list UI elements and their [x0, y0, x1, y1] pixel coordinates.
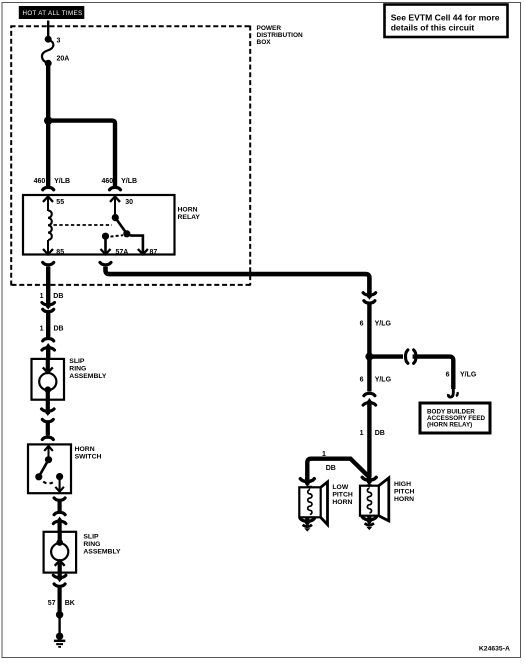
svg-text:DB: DB: [54, 326, 64, 333]
svg-text:SLIP: SLIP: [69, 358, 85, 365]
svg-text:1: 1: [40, 293, 44, 300]
svg-text:30: 30: [125, 199, 133, 206]
svg-text:SLIP: SLIP: [83, 533, 99, 540]
svg-text:PITCH: PITCH: [332, 491, 352, 498]
svg-text:HORN: HORN: [178, 207, 198, 214]
svg-text:(HORN RELAY): (HORN RELAY): [427, 421, 472, 428]
svg-text:RELAY: RELAY: [178, 214, 201, 221]
svg-text:460: 460: [102, 178, 114, 185]
svg-text:1: 1: [322, 451, 326, 458]
svg-text:PITCH: PITCH: [394, 488, 414, 495]
svg-text:1: 1: [360, 430, 364, 437]
svg-text:6: 6: [446, 372, 450, 379]
svg-text:HORN: HORN: [75, 446, 95, 453]
svg-text:HOT AT ALL TIMES: HOT AT ALL TIMES: [23, 10, 83, 17]
svg-text:Y/LB: Y/LB: [121, 178, 137, 185]
svg-text:57A: 57A: [116, 249, 129, 256]
svg-text:details of this circuit: details of this circuit: [391, 22, 475, 32]
svg-text:ASSEMBLY: ASSEMBLY: [83, 548, 121, 555]
svg-text:DISTRIBUTION: DISTRIBUTION: [257, 32, 304, 39]
svg-text:HIGH: HIGH: [394, 481, 411, 488]
svg-text:Y/LG: Y/LG: [460, 372, 477, 379]
svg-text:3: 3: [57, 38, 61, 45]
svg-text:DB: DB: [375, 430, 385, 437]
svg-text:BK: BK: [65, 600, 75, 607]
svg-text:RING: RING: [69, 366, 86, 373]
svg-text:85: 85: [56, 249, 64, 256]
svg-text:SWITCH: SWITCH: [75, 453, 102, 460]
svg-text:K24635-A: K24635-A: [479, 646, 510, 653]
svg-text:HORN: HORN: [394, 496, 414, 503]
svg-text:Y/LB: Y/LB: [54, 178, 70, 185]
svg-text:LOW: LOW: [332, 484, 348, 491]
svg-text:HORN: HORN: [332, 499, 352, 506]
svg-text:DB: DB: [326, 465, 336, 472]
svg-text:20A: 20A: [57, 56, 70, 63]
svg-text:6: 6: [360, 320, 364, 327]
svg-text:POWER: POWER: [257, 25, 282, 32]
svg-text:DB: DB: [53, 293, 63, 300]
svg-text:ASSEMBLY: ASSEMBLY: [69, 373, 107, 380]
svg-text:6: 6: [360, 377, 364, 384]
svg-text:BOX: BOX: [257, 39, 272, 46]
svg-text:Y/LG: Y/LG: [375, 320, 392, 327]
svg-text:1: 1: [40, 326, 44, 333]
svg-text:460: 460: [34, 178, 46, 185]
svg-text:55: 55: [56, 199, 64, 206]
svg-text:57: 57: [48, 600, 56, 607]
svg-text:RING: RING: [83, 541, 100, 548]
svg-text:87: 87: [150, 249, 158, 256]
svg-text:Y/LG: Y/LG: [375, 377, 392, 384]
svg-text:See EVTM Cell 44 for more: See EVTM Cell 44 for more: [391, 12, 500, 22]
